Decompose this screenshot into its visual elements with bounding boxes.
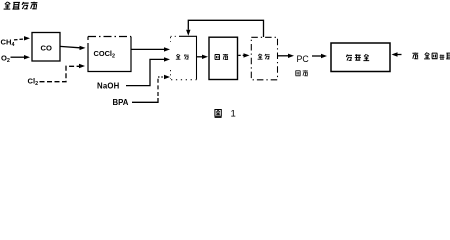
svg-text:CO: CO: [41, 44, 52, 53]
label in separation box (2 CJK chars): [258, 54, 263, 59]
wire CO to COCl2 (arrow): [60, 46, 80, 47]
box polymerization (faint degraded dash-dot border): [179, 36, 197, 79]
box CO: [32, 33, 60, 62]
wire recycle from separation box top to polymerization box top: [188, 20, 263, 37]
svg-text:PC: PC: [297, 54, 310, 64]
svg-text:NaOH: NaOH: [97, 81, 120, 90]
wire arrow pointing left into pelletizer right edge: [397, 54, 402, 56]
box pelletizer: [331, 43, 390, 72]
svg-text:BPA: BPA: [113, 98, 129, 107]
wire PC to pelletizer box (arrow): [312, 55, 322, 57]
wire NaOH to polymerization box (right, up, right with arrow): [126, 59, 165, 85]
label in polymerization box (2 CJK chars): [176, 54, 181, 59]
wire purification to separation (dash-dot arrow): [238, 54, 244, 56]
label in pelletizer box (3 CJK chars): [346, 54, 352, 60]
wire O2 to CO box (arrow): [11, 56, 26, 58]
svg-text:COCl2: COCl2: [94, 49, 115, 60]
label in purification box (2 CJK chars): [215, 55, 220, 60]
label resin (2 CJK chars under PC): [296, 71, 301, 76]
title text top-left (4 CJK chars, degraded scan): [4, 2, 38, 9]
wire BPA to polymerization box (right, up, dotted right with arrow): [132, 98, 158, 102]
box COCl2 (solid sides, dash-dot top): [88, 37, 131, 72]
svg-text:1: 1: [231, 109, 236, 120]
box separation (dash-dot border): [251, 37, 277, 80]
wire CH4 to CO box (dashed with arrow): [14, 38, 24, 41]
wire COCl2 to polymerization box (arrow): [131, 48, 165, 50]
wire polymerization to purification (arrow): [197, 56, 204, 58]
box purification: [209, 37, 238, 79]
caption: CJK char for figure: [215, 110, 222, 118]
wire Cl2 to COCl2 (dashed, up then right with arrow): [40, 66, 80, 81]
wire separation to PC (arrow): [278, 55, 290, 57]
label product (5 CJK chars at far right): [412, 53, 418, 59]
